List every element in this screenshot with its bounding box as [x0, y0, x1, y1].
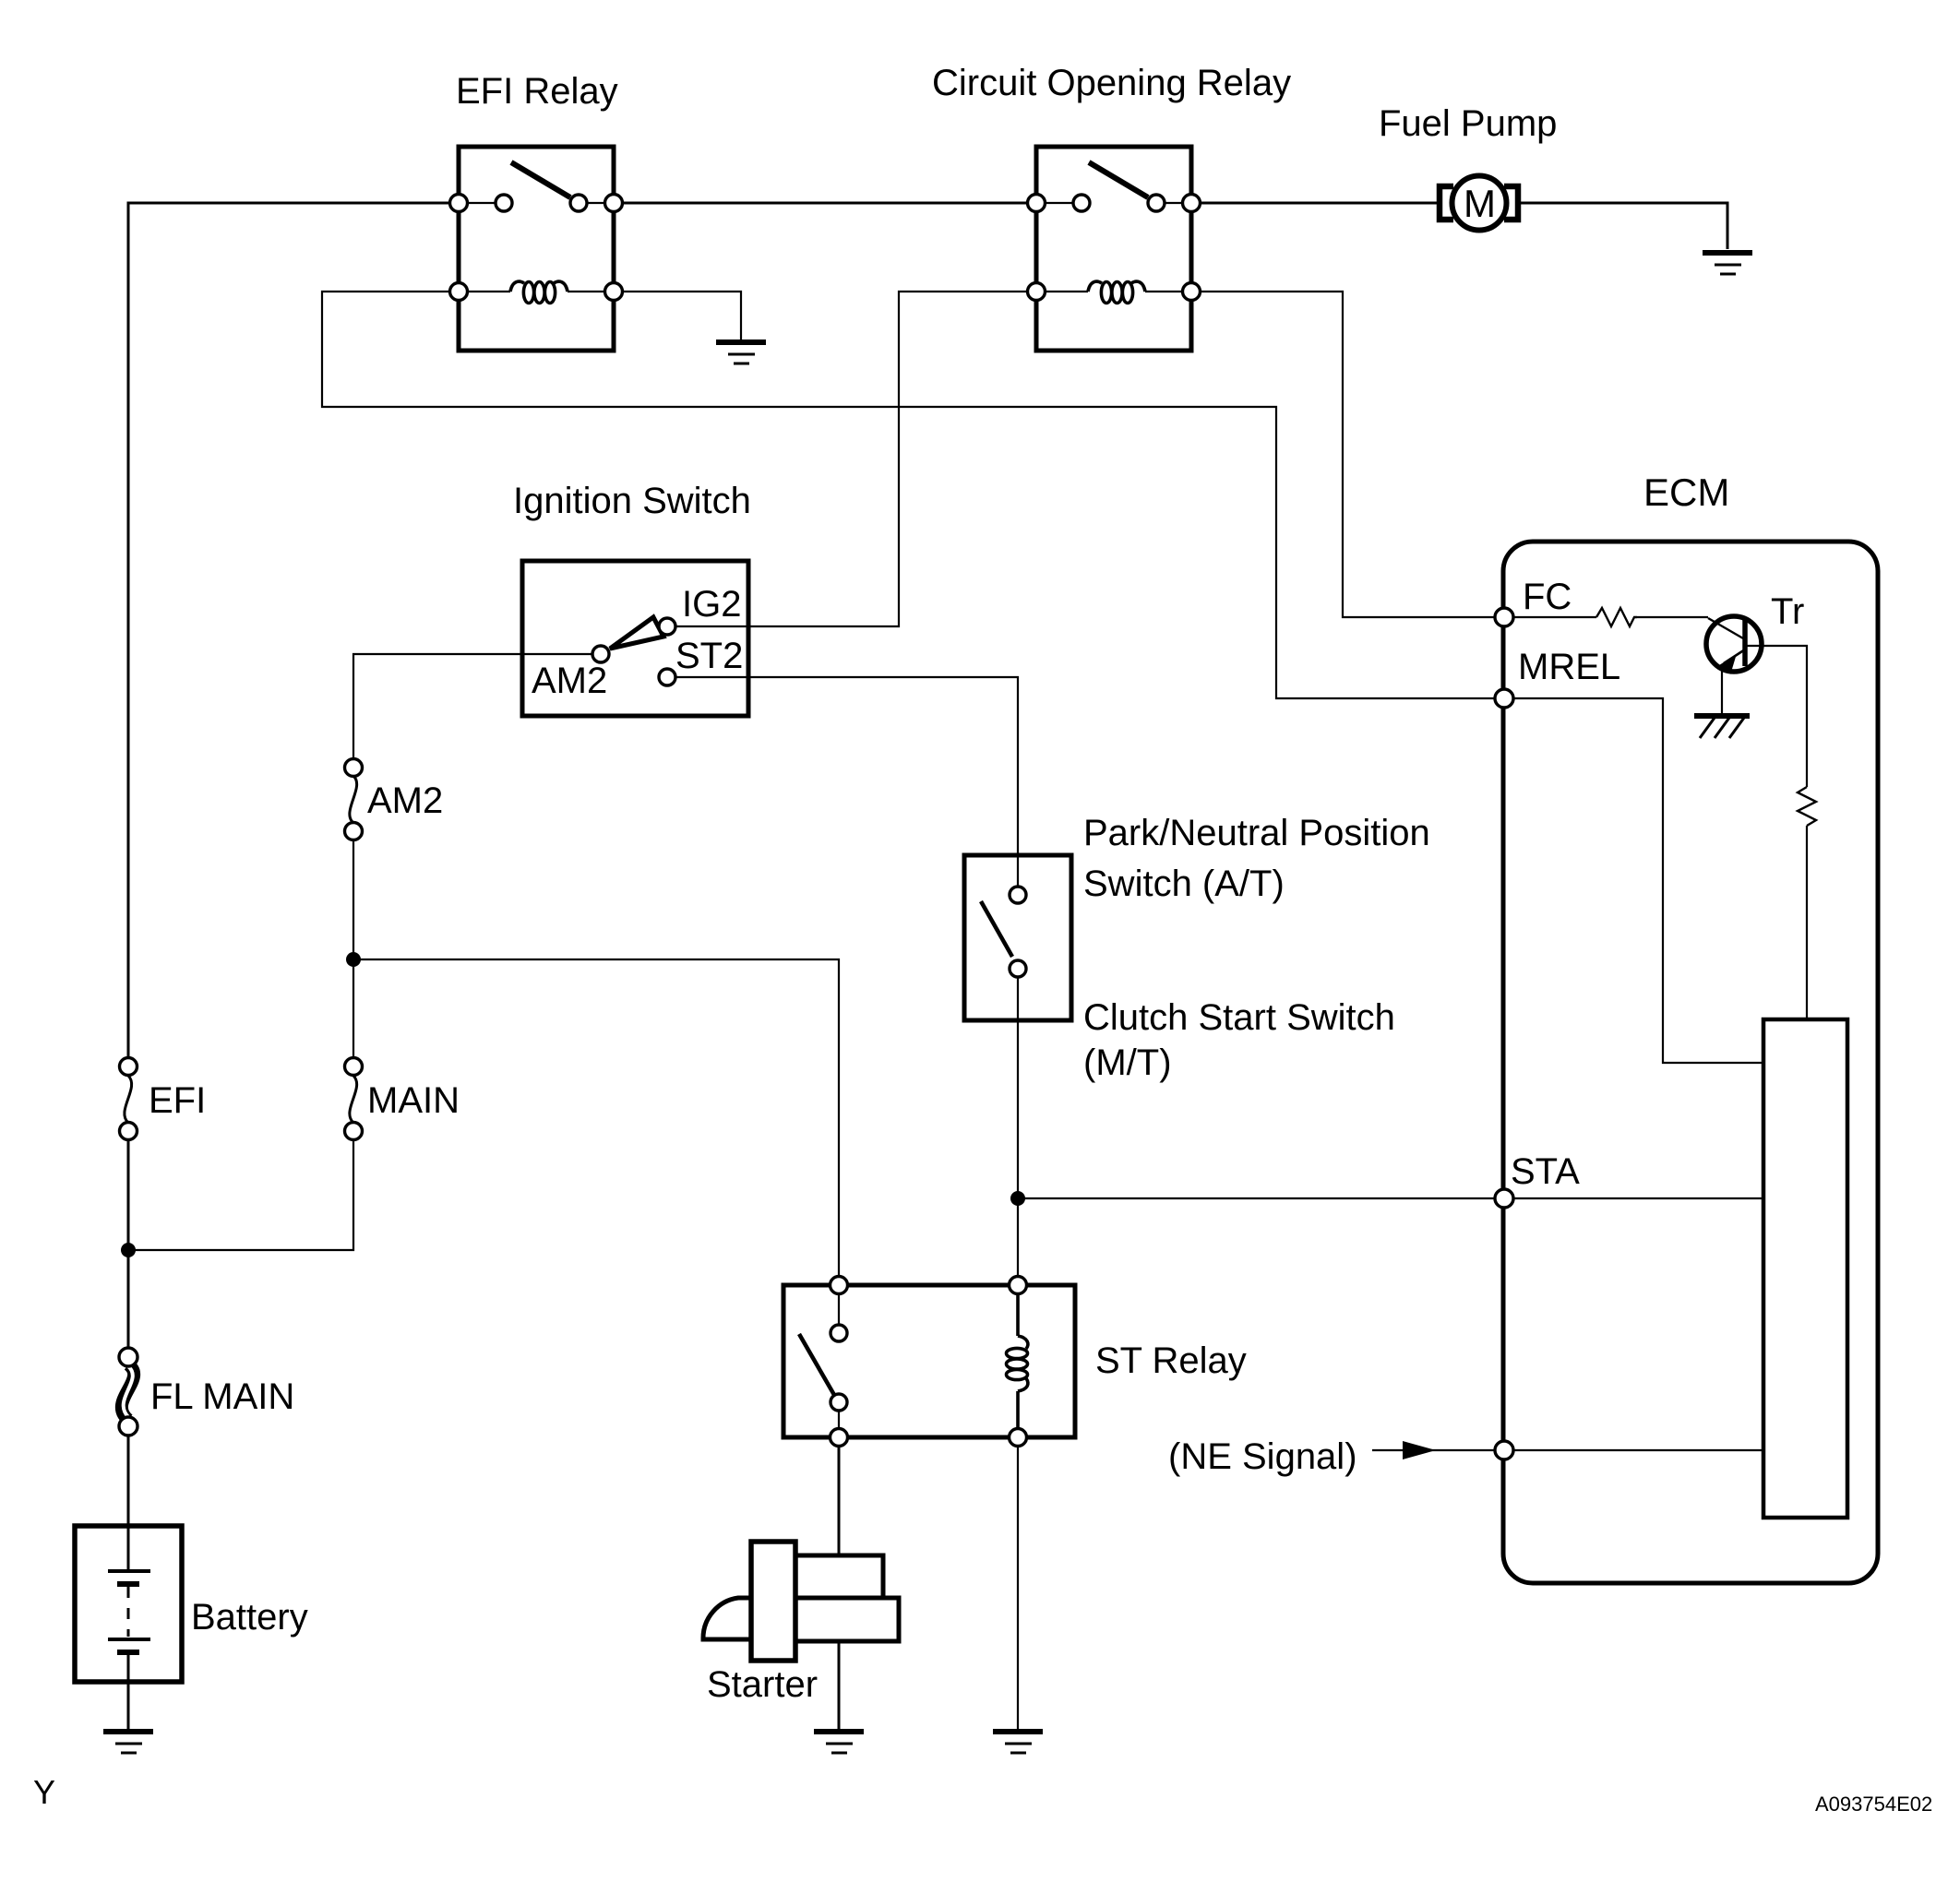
- ECM terminal FC: [1495, 608, 1513, 626]
- wire AM2 node branch to ST relay switch: [353, 959, 839, 1285]
- svg-text:Starter: Starter: [707, 1664, 818, 1705]
- svg-text:ST2: ST2: [675, 636, 743, 676]
- fuse EFI: [120, 1058, 207, 1140]
- transistor Tr: [1706, 591, 1804, 673]
- svg-text:AM2: AM2: [367, 780, 443, 821]
- svg-text:Battery: Battery: [191, 1597, 308, 1638]
- wire transistor collector to vertical resistor to block: [1745, 646, 1807, 1019]
- svg-text:Switch (A/T): Switch (A/T): [1083, 864, 1285, 904]
- svg-text:FL MAIN: FL MAIN: [150, 1376, 294, 1417]
- ECM terminal NE: [1495, 1441, 1513, 1459]
- junction node STA branch: [1010, 1191, 1025, 1206]
- svg-text:STA: STA: [1511, 1151, 1580, 1192]
- ST Relay: [783, 1285, 1247, 1437]
- ECM terminal MREL: [1495, 689, 1513, 708]
- ECM terminal STA: [1495, 1189, 1513, 1208]
- wire STA net from junction through ECM STA terminal to internal block: [1018, 1197, 1763, 1199]
- fusible link FL MAIN: [119, 1348, 294, 1435]
- wire EFI relay to Circuit Opening Relay: [614, 202, 1036, 205]
- EFI relay pins: [450, 195, 623, 301]
- ground for starter: [814, 1732, 864, 1753]
- svg-text:Circuit Opening Relay: Circuit Opening Relay: [932, 63, 1291, 103]
- wire ignition switch ST2 to Park/Neutral position switch: [667, 677, 1018, 887]
- svg-text:(M/T): (M/T): [1083, 1042, 1172, 1083]
- svg-text:Fuel Pump: Fuel Pump: [1379, 103, 1557, 144]
- svg-text:Tr: Tr: [1771, 591, 1804, 632]
- Ignition Switch: [513, 481, 751, 716]
- wire ignition switch AM2 terminal to AM2 fuse: [353, 654, 601, 758]
- svg-text:FC: FC: [1523, 577, 1572, 617]
- wire battery B+ main line up left side and along top to EFI relay: [128, 203, 459, 1729]
- Battery: [75, 1526, 308, 1682]
- ground for ST relay coil: [993, 1732, 1043, 1753]
- ECM internal block: [1763, 1019, 1847, 1518]
- svg-text:A093754E02: A093754E02: [1815, 1793, 1932, 1816]
- wire ECM MREL internal to block: [1504, 698, 1763, 1063]
- chassis ground under transistor: [1694, 716, 1750, 738]
- wire Fuel Pump to ground: [1518, 203, 1727, 249]
- relay coil COR: [1088, 281, 1145, 303]
- wire AM2 fuse to MAIN fuse and branch to battery line: [128, 840, 353, 1250]
- wire ECM FC internal to resistor and transistor base: [1504, 616, 1708, 618]
- svg-text:ECM: ECM: [1643, 470, 1729, 514]
- wire starter to ground: [838, 1641, 841, 1729]
- ground for EFI relay coil: [716, 342, 766, 363]
- svg-text:Ignition Switch: Ignition Switch: [513, 481, 751, 521]
- EFI relay: [456, 71, 618, 351]
- ST relay pins: [831, 1277, 1027, 1447]
- Starter: [703, 1542, 899, 1705]
- svg-text:EFI: EFI: [149, 1080, 206, 1121]
- svg-text:Clutch Start Switch: Clutch Start Switch: [1083, 997, 1395, 1038]
- Park/Neutral Position Switch: [964, 813, 1430, 1083]
- Fuel Pump motor: [1379, 103, 1557, 231]
- svg-text:MREL: MREL: [1518, 647, 1620, 687]
- ignition switch pins IG2 AM2 ST2: [592, 618, 675, 685]
- resistor vertical to block: [1798, 787, 1816, 826]
- svg-text:AM2: AM2: [532, 661, 607, 701]
- svg-text:Park/Neutral Position: Park/Neutral Position: [1083, 813, 1430, 853]
- svg-text:ST Relay: ST Relay: [1095, 1340, 1247, 1381]
- relay coil ST: [1007, 1285, 1028, 1437]
- wire P/N switch to ST relay coil: [1017, 977, 1019, 1285]
- wire EFI relay coil left to ECM MREL: [322, 292, 1504, 698]
- NE Signal arrow: [1168, 1436, 1436, 1477]
- resistor on FC line: [1596, 608, 1637, 626]
- svg-text:M: M: [1464, 182, 1496, 225]
- svg-text:MAIN: MAIN: [367, 1080, 460, 1121]
- wire COR coil left to ignition switch IG2: [667, 292, 1036, 626]
- Circuit Opening Relay: [932, 63, 1291, 351]
- wire ST relay switch to starter: [838, 1437, 841, 1555]
- svg-text:Y: Y: [33, 1773, 55, 1811]
- ground for battery: [103, 1732, 153, 1753]
- junction node AM2/ST relay: [346, 952, 361, 967]
- svg-text:IG2: IG2: [682, 584, 741, 625]
- wire COR coil right to ECM FC: [1191, 292, 1504, 617]
- COR relay pins: [1028, 195, 1201, 301]
- wire NE signal into ECM to block: [1372, 1449, 1763, 1451]
- wire transistor emitter to chassis ground: [1721, 670, 1723, 714]
- junction node MAIN/battery line: [121, 1243, 136, 1257]
- wire ST relay coil to ground: [1017, 1437, 1019, 1729]
- fuse AM2: [345, 759, 444, 840]
- P/N switch pins: [1010, 887, 1026, 977]
- relay coil EFI: [510, 281, 568, 303]
- wire COR relay to Fuel Pump: [1191, 202, 1440, 205]
- fuse MAIN: [345, 1058, 460, 1140]
- ground for fuel pump: [1703, 253, 1752, 274]
- svg-text:(NE Signal): (NE Signal): [1168, 1436, 1357, 1477]
- wire EFI relay coil right to ground: [614, 292, 741, 340]
- ECM outline: [1503, 470, 1878, 1583]
- svg-text:EFI Relay: EFI Relay: [456, 71, 618, 112]
